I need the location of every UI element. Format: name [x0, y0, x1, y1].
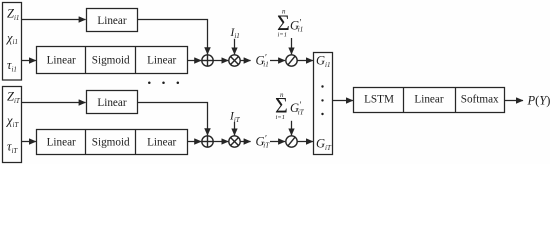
- wire input1 to row1: [22, 60, 36, 62]
- wire divide1 to G box: [297, 60, 313, 62]
- label I_i1: [230, 27, 240, 40]
- svg-text:Linear: Linear: [47, 136, 76, 148]
- label tau_i1: [7, 58, 17, 73]
- wire multiplierT to G' label: [240, 141, 250, 143]
- svg-text:Sigmoid: Sigmoid: [92, 54, 130, 66]
- label sum_i1 (sigma n i=1 G'_i1): [277, 8, 303, 39]
- svg-text:G′i1: G′i1: [256, 53, 269, 69]
- svg-text:ZiT: ZiT: [7, 90, 21, 105]
- wire adder1 to multiplier1: [213, 60, 228, 62]
- svg-text:P(Y): P(Y): [527, 94, 550, 108]
- label I_iT: [229, 111, 241, 124]
- divider 1 row1: [85, 47, 87, 74]
- svg-text:n: n: [280, 91, 284, 99]
- label Linear U2: [97, 97, 126, 109]
- svg-text:Linear: Linear: [97, 15, 126, 27]
- label Linear2 rowT: [147, 136, 176, 148]
- label sum_iT (sigma n i=1 G'_iT): [275, 91, 305, 121]
- divide circle t=1: [286, 55, 297, 66]
- divider 1 rowT: [85, 130, 87, 155]
- label G_i1 in G box: [316, 53, 330, 68]
- svg-text:Sigmoid: Sigmoid: [92, 136, 130, 148]
- wire input1 to Linear U1: [22, 19, 86, 21]
- wire Softmax to P(Y): [505, 100, 524, 102]
- svg-text:Linear: Linear: [97, 97, 126, 109]
- adder circle t=1: [202, 55, 213, 66]
- svg-text:τiT: τiT: [7, 140, 18, 155]
- label Linear row1: [47, 54, 76, 66]
- label Sigmoid row1: [92, 54, 130, 66]
- svg-text:IiT: IiT: [229, 111, 241, 124]
- Linear box U1: [87, 9, 138, 32]
- row box t=1: Linear|Sigmoid|Linear: [37, 47, 188, 74]
- svg-text:Zi1: Zi1: [7, 7, 19, 22]
- label Linear final: [414, 94, 443, 106]
- wire inputT to rowT: [22, 141, 36, 143]
- svg-text:χiT: χiT: [6, 113, 19, 128]
- svg-text:Softmax: Softmax: [461, 94, 499, 106]
- wire sumT into divide circle: [291, 121, 293, 136]
- Linear box U2: [87, 91, 138, 114]
- wire Linear U1 elbow into adder: [138, 20, 208, 55]
- input box t=1 (Z,chi,tau): [3, 3, 22, 81]
- wire rowT to adder: [188, 141, 202, 143]
- label G_iT in G box: [316, 137, 332, 152]
- input box t=T (Z,chi,tau): [3, 87, 22, 163]
- wire Linear U2 elbow into adder T: [138, 103, 208, 136]
- wire divideT to G box: [297, 141, 313, 143]
- label Sigmoid rowT: [92, 136, 130, 148]
- svg-text:G′i1: G′i1: [290, 17, 303, 33]
- multiplier circle t=T: [229, 136, 240, 147]
- svg-text:χi1: χi1: [6, 31, 18, 46]
- svg-text:GiT: GiT: [316, 137, 332, 152]
- svg-text:LSTM: LSTM: [364, 94, 394, 106]
- svg-text:i=1: i=1: [276, 114, 285, 121]
- label chi_iT: [6, 113, 19, 128]
- wire multiplier1 to G' label: [240, 60, 250, 62]
- wire sum1 into divide circle: [291, 38, 293, 54]
- label Z_iT: [7, 90, 21, 105]
- svg-text:G′iT: G′iT: [290, 100, 305, 116]
- divider 2 row1: [135, 47, 137, 74]
- divider 2 rowT: [135, 130, 137, 155]
- label Linear rowT: [47, 136, 76, 148]
- adder circle t=T: [202, 136, 213, 147]
- svg-text:Linear: Linear: [414, 94, 443, 106]
- multiplier circle t=1: [229, 55, 240, 66]
- label tau_iT: [7, 140, 18, 155]
- label LSTM: [364, 94, 394, 106]
- divider Linear/Softmax: [455, 88, 457, 113]
- label Softmax: [461, 94, 499, 106]
- wire adderT to multiplierT: [213, 141, 228, 143]
- label G'_iT mid: [256, 134, 271, 150]
- label Z_i1: [7, 7, 19, 22]
- horizontal dots between rows: [148, 82, 179, 85]
- wire I_i1 into multiplier1: [234, 39, 236, 55]
- wire inputT to Linear U2: [22, 102, 86, 104]
- divide circle t=T: [286, 136, 297, 147]
- wire G' labelT to divider circle: [270, 141, 285, 143]
- label P(Y) output: [527, 94, 550, 108]
- svg-text:i=1: i=1: [278, 31, 287, 38]
- label G'_i1 mid: [256, 53, 269, 69]
- svg-text:Ii1: Ii1: [230, 27, 240, 40]
- vertical dots in G box: [321, 85, 323, 115]
- divider LSTM/Linear: [403, 88, 405, 113]
- wire G' label to divider circle: [270, 60, 285, 62]
- wire G box to LSTM row: [333, 100, 353, 102]
- svg-text:Gi1: Gi1: [316, 53, 330, 68]
- svg-text:n: n: [282, 8, 286, 16]
- G column box: [314, 53, 333, 155]
- row box t=T: Linear|Sigmoid|Linear: [37, 130, 188, 155]
- svg-text:τi1: τi1: [7, 58, 17, 73]
- LSTM row box: LSTM|Linear|Softmax: [354, 88, 505, 113]
- label Linear2 row1: [147, 54, 176, 66]
- svg-text:Linear: Linear: [147, 136, 176, 148]
- svg-text:G′iT: G′iT: [256, 134, 271, 150]
- label Linear U1: [97, 15, 126, 27]
- svg-text:Linear: Linear: [47, 54, 76, 66]
- svg-text:Linear: Linear: [147, 54, 176, 66]
- wire row1 to adder: [188, 60, 202, 62]
- wire I_iT into multiplierT: [234, 122, 236, 135]
- label chi_i1: [6, 31, 18, 46]
